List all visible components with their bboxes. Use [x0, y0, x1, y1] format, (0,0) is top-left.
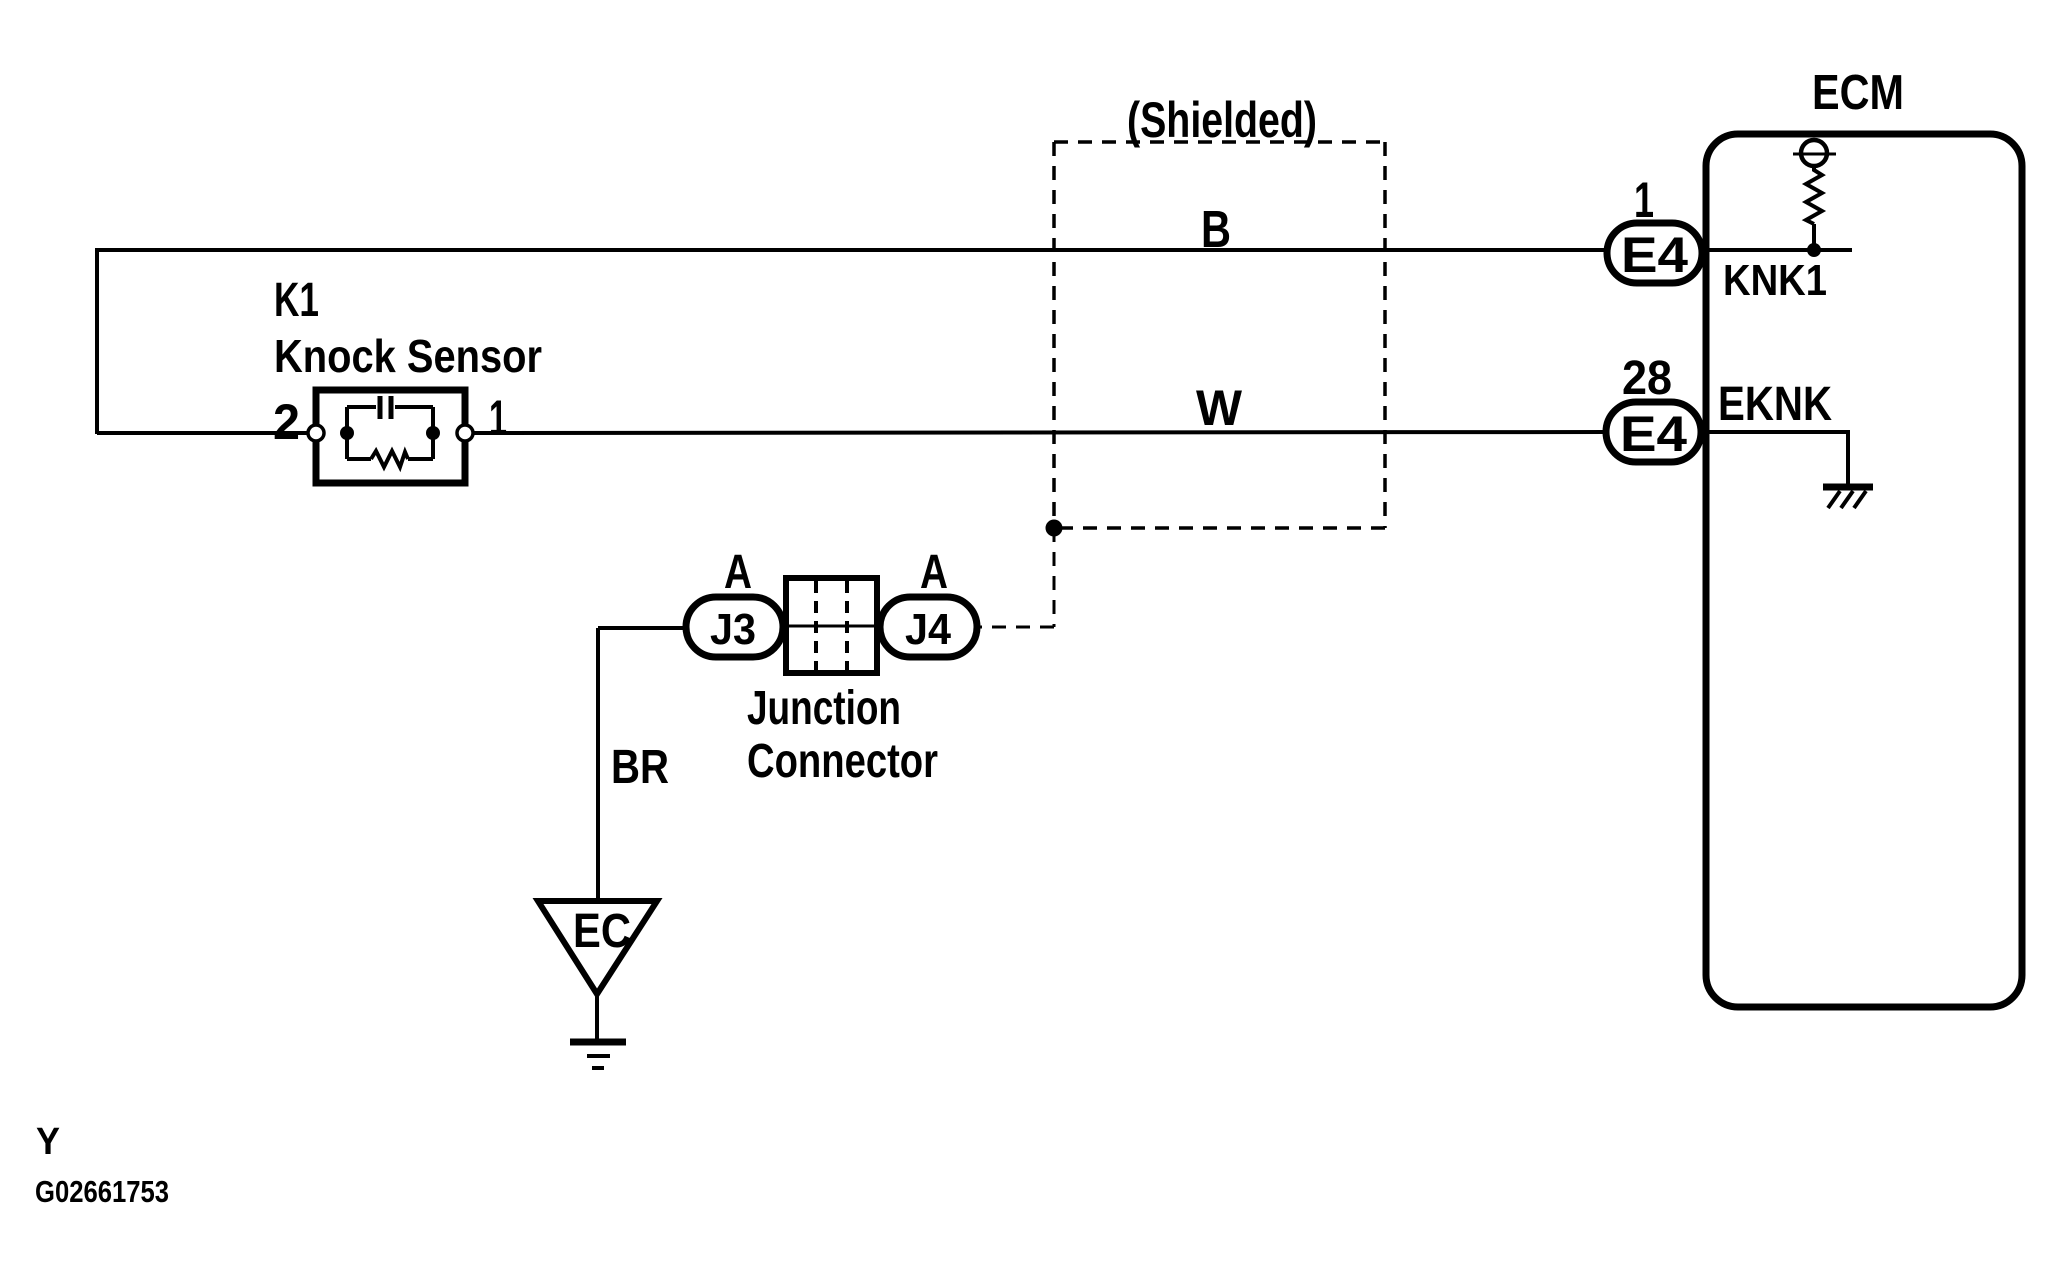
wire vertical BR: [596, 628, 600, 901]
wire B top horizontal: [95, 248, 1608, 252]
svg-text:K1: K1: [274, 274, 319, 327]
svg-text:EC: EC: [573, 905, 631, 958]
wire EKNK inside ECM: [1701, 432, 1848, 484]
open terminal pin 2: [308, 425, 324, 441]
wire J3 to ground drop: [598, 626, 686, 630]
capacitor plates: [380, 396, 391, 419]
svg-text:A: A: [724, 546, 752, 599]
junction dot right node: [426, 426, 440, 440]
wire bottom branch to resistor: [347, 457, 371, 461]
svg-text:Connector: Connector: [747, 735, 938, 788]
svg-text:2: 2: [273, 394, 300, 450]
svg-text:E4: E4: [1621, 227, 1688, 283]
svg-text:Knock Sensor: Knock Sensor: [274, 330, 542, 382]
ground symbol below EC: [570, 1042, 626, 1068]
dashed drain wire vertical: [1053, 528, 1056, 627]
wire left vertical: [95, 248, 99, 434]
ECM box: [1706, 134, 2022, 1007]
junction dot KNK1: [1807, 243, 1821, 257]
connector E4 pin 28: [1606, 402, 1701, 462]
svg-text:A: A: [920, 546, 948, 599]
connector J4: [880, 597, 977, 657]
chassis ground symbol: [1823, 487, 1873, 508]
svg-text:KNK1: KNK1: [1723, 256, 1827, 305]
svg-text:EKNK: EKNK: [1718, 378, 1832, 431]
svg-text:ECM: ECM: [1812, 66, 1904, 120]
wire top branch to capacitor: [347, 405, 376, 409]
junction dot left node: [340, 426, 354, 440]
svg-text:J3: J3: [710, 605, 756, 654]
resistor R inside ECM: [1806, 166, 1822, 224]
connector E4 pin 1: [1607, 223, 1702, 283]
svg-text:(Shielded): (Shielded): [1127, 92, 1317, 148]
svg-text:J4: J4: [905, 605, 951, 654]
wire W right segment: [472, 432, 1607, 433]
pull-up terminal circle: [1801, 140, 1827, 166]
open terminal pin 1: [457, 425, 473, 441]
svg-text:1: 1: [489, 390, 507, 446]
connector J3: [686, 597, 783, 657]
shield dashed box: [1054, 142, 1385, 528]
wire resistor to dot: [1812, 224, 1816, 250]
svg-text:Y: Y: [36, 1121, 60, 1163]
wire capacitor to right node: [395, 405, 433, 409]
svg-text:E4: E4: [1620, 406, 1687, 462]
ground EC triangle: [538, 901, 657, 994]
svg-text:G02661753: G02661753: [35, 1174, 169, 1209]
wire triangle to ground: [595, 994, 599, 1041]
svg-text:B: B: [1201, 201, 1231, 259]
wire W left segment: [97, 431, 310, 435]
junction connector box: [786, 578, 877, 673]
wire resistor to right node: [408, 457, 433, 461]
node stub left inside sensor: [345, 407, 349, 459]
terminal crossbar: [1793, 153, 1836, 156]
junction connector dashed divider 2: [845, 581, 849, 671]
svg-text:BR: BR: [611, 741, 669, 794]
wire KNK1 inside ECM: [1702, 248, 1852, 252]
svg-text:28: 28: [1622, 352, 1672, 405]
resistor zigzag inside sensor: [371, 451, 408, 467]
junction connector dashed divider 1: [814, 581, 818, 671]
node stub right inside sensor: [431, 407, 435, 459]
svg-text:1: 1: [1634, 172, 1654, 228]
svg-text:Junction: Junction: [747, 682, 901, 735]
junction connector midline: [783, 625, 880, 628]
shield junction dot: [1046, 520, 1063, 537]
dashed drain wire horizontal to J4: [977, 626, 1054, 629]
knock sensor K1 box: [316, 390, 465, 483]
svg-text:W: W: [1196, 380, 1243, 436]
